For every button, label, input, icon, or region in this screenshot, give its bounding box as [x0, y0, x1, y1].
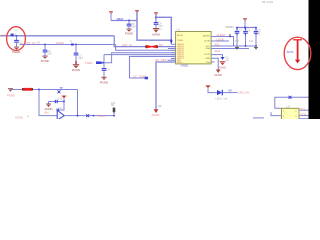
ground below C1: [12, 47, 20, 55]
ground under C9: [254, 46, 258, 50]
ground below C4: [100, 77, 108, 85]
wire from P2 down to IC pin1 column: [137, 12, 171, 44]
LED D1: [216, 90, 238, 101]
gray text above C10: [58, 97, 63, 101]
gray value text C8: [249, 40, 254, 43]
bead FB2: [145, 77, 148, 80]
wire TN2 y=62 stub: [211, 61, 214, 63]
net label red on output: [98, 114, 106, 118]
svg-text:AGND: AGND: [15, 115, 23, 119]
ground below C3 (large): [72, 64, 80, 72]
tiny gray text top right: [262, 0, 273, 4]
net label red end of LED wire: [239, 91, 250, 95]
net label (red) mid: [56, 41, 64, 45]
svg-text:ANT: ANT: [0, 33, 6, 37]
svg-text:TP: TP: [60, 86, 64, 90]
svg-text:red: red: [224, 97, 228, 101]
capacitor C6: [154, 22, 163, 29]
svg-text:RXEN: RXEN: [56, 41, 64, 45]
junction x=64 y=101.5: [63, 101, 65, 103]
svg-text:SCL: SCL: [301, 107, 307, 111]
red ground below blue arrow: [218, 61, 226, 69]
wire: jog down at x=114: [114, 36, 175, 47]
svg-text:AGND: AGND: [152, 33, 160, 37]
svg-text:SDA: SDA: [215, 49, 221, 53]
svg-text:PGND: PGND: [7, 93, 15, 97]
capacitor C3: [74, 45, 83, 62]
svg-text:PGND: PGND: [41, 59, 49, 63]
wire: main antenna net horizontal y=35.8: [0, 35, 114, 37]
cap leads down to rail y=46: [237, 35, 256, 46]
ground left end of sub-circuit: [45, 102, 53, 111]
svg-text:VDD33: VDD33: [225, 25, 234, 29]
connector/IC U3 yellow: [282, 104, 300, 122]
capacitor C5: [127, 21, 136, 29]
staircase wire: pin row y=50.3: [168, 48, 176, 50]
svg-text:AVDD: AVDD: [177, 34, 183, 37]
junction x=103: [102, 62, 104, 64]
blue mark near op-amp: [57, 109, 60, 112]
svg-text:104: 104: [131, 25, 136, 29]
staircase wire: pin row y=56.4: [130, 56, 176, 78]
svg-text:R9: R9: [158, 104, 162, 108]
svg-text:1uF: 1uF: [235, 40, 240, 43]
annotation ellipse (left, red hand-drawn): [7, 27, 26, 51]
ground below C6 (large): [152, 28, 162, 37]
svg-text:LDOE: LDOE: [217, 37, 225, 41]
svg-text:DVDD: DVDD: [177, 40, 184, 42]
wire ALERT y=36.5: [211, 37, 256, 47]
svg-text:104: 104: [78, 56, 83, 60]
junction x=39: [38, 89, 40, 91]
svg-text:LED1: LED1: [216, 97, 223, 101]
U1 left pin stubs: [171, 44, 176, 62]
RF pin wire y=62 to long vertical: [156, 62, 176, 109]
gray label VDD33: [225, 25, 234, 29]
svg-text:TXEN: TXEN: [85, 61, 92, 65]
svg-text:N2: N2: [37, 41, 41, 45]
rail y=27.5: [237, 27, 256, 29]
blue text above wire: [60, 86, 64, 90]
arrow into IC pin column: [170, 39, 173, 43]
left vertical x=39: [39, 90, 57, 116]
power symbol P3: [154, 13, 158, 23]
right vertical x=77.5: [77, 90, 79, 116]
junction x=77.5 on output: [77, 115, 79, 117]
net label SDA red: [215, 49, 221, 53]
blue label above LED wire: [229, 89, 233, 93]
svg-text:1uF: 1uF: [249, 40, 254, 43]
red highlighted resistor (bowtie) on antenna path: [145, 45, 158, 49]
op-amp U2: [57, 106, 64, 120]
blue X on y97 wire: [289, 96, 292, 99]
staircase wire: pin row y=54.6 drop to C4: [104, 55, 176, 69]
svg-text:ALERT: ALERT: [217, 33, 226, 37]
annotation ellipse (right, red hand-drawn): [284, 37, 311, 69]
gray text near x156 bottom: [158, 104, 162, 108]
junction x=156 y=17.3: [155, 16, 157, 18]
junctions on rail: [236, 27, 257, 29]
net label after bowtie: [159, 43, 163, 47]
red highlighted resistor R_sense: [22, 88, 33, 91]
test point TP1: [70, 40, 74, 45]
junction x=129: [128, 20, 130, 22]
svg-text:SCL: SCL: [215, 42, 221, 46]
U3 pin texts: [283, 111, 297, 118]
svg-text:SDA: SDA: [206, 47, 211, 50]
designator text gray: [37, 41, 41, 45]
inductor L1 on antenna net: [11, 32, 18, 36]
svg-text:GND: GND: [205, 58, 210, 60]
blue net label on wire: [117, 17, 124, 21]
U3 right wires: [299, 110, 309, 119]
net label SCL red: [215, 42, 221, 46]
junction at x=45: [44, 44, 46, 46]
bottom-right connector wires top: [275, 97, 309, 108]
ground below C2: [41, 56, 49, 64]
junction x=114: [113, 115, 115, 117]
svg-text:VBAT: VBAT: [117, 17, 124, 21]
red power arrow bottom of x156: [152, 109, 160, 117]
U1 right pin names (dark tiny): [203, 35, 211, 64]
staircase wire: pin row y=48.5: [116, 45, 176, 51]
net label ALERT red: [217, 33, 226, 37]
wire DCVP y=54.6: [211, 55, 222, 57]
stub down from junction: [57, 102, 64, 111]
bottom-left isolated net label: [15, 115, 23, 119]
ground below C5: [125, 29, 133, 36]
svg-text:LED_ON: LED_ON: [239, 91, 250, 95]
capacitor C8: [243, 28, 251, 36]
gray value text C7: [235, 40, 240, 43]
svg-text:RF_TEST: RF_TEST: [156, 58, 169, 62]
wire GND y=58.3 down: [211, 58, 218, 69]
dark arrow on ALERT at x230: [229, 35, 231, 38]
svg-text:PGND: PGND: [72, 68, 80, 72]
svg-text:RX_IN: RX_IN: [27, 41, 35, 45]
ground under C7: [235, 46, 239, 50]
net label RXP (red): [27, 41, 35, 45]
ferrite bead FB1 on y62.7: [96, 61, 102, 64]
svg-text:C4: C4: [106, 68, 110, 72]
svg-text:RF: RF: [159, 43, 163, 47]
resistor R3 vertical dark: [111, 102, 116, 116]
svg-text:U1: U1: [177, 28, 181, 32]
capacitor C9: [254, 28, 262, 36]
svg-text:1N: 1N: [226, 59, 229, 62]
pin stub row y=58.4: [171, 57, 176, 59]
blue net label in right ellipse: [287, 50, 295, 54]
capacitor C7: [235, 28, 243, 36]
svg-text:PGND: PGND: [100, 80, 108, 84]
svg-text:C10: C10: [58, 97, 63, 101]
capacitor C4: [102, 68, 110, 77]
blue X mark on wire: [58, 90, 61, 93]
wire y=20.5: [111, 20, 137, 22]
LED circuit: power T: [206, 86, 217, 93]
sub-circuit: power red T: [62, 96, 67, 102]
U1 left pin names (red tiny): [177, 34, 184, 64]
short wire bottom left of connector: [253, 117, 264, 119]
top-right decoupling: power P4: [243, 19, 247, 28]
svg-text:ALERT: ALERT: [203, 35, 211, 38]
wire SDA y=48.5: [211, 48, 249, 50]
svg-text:R: R: [28, 115, 30, 119]
power symbol top-left P1: [109, 12, 113, 21]
svg-text:AGND: AGND: [218, 65, 226, 69]
net label before bowtie: [122, 43, 132, 47]
junction at x=76: [75, 44, 77, 46]
stub wire into connector pin2: [271, 112, 282, 115]
gray text right of arrow: [226, 57, 230, 62]
wire y=101.5: [49, 101, 65, 103]
blue net text under IC bottom-left: [181, 64, 189, 68]
red wire segment below C3: [75, 61, 77, 64]
junction small x=93.5: [93, 115, 95, 117]
staircase wire: pin row y=60.2: [168, 59, 176, 61]
svg-text:DCVP: DCVP: [204, 54, 211, 56]
svg-text:U2: U2: [59, 106, 63, 110]
wire LDOE y=41: [211, 40, 229, 42]
power symbol P2: [135, 10, 139, 12]
net label LDOE red: [217, 37, 225, 41]
svg-text:VOUT: VOUT: [98, 114, 106, 118]
svg-text:WL-1234: WL-1234: [262, 0, 273, 4]
svg-text:AGND: AGND: [152, 113, 160, 117]
output wire y=114.8: [64, 115, 114, 117]
svg-text:104: 104: [47, 52, 52, 56]
red power arrow bottom: [214, 70, 222, 78]
svg-text:LDOE: LDOE: [204, 41, 210, 43]
capacitor C1 (in left ellipse): [14, 36, 23, 47]
svg-text:ANT_M: ANT_M: [122, 43, 132, 47]
wire from P3 right and down to IC: [156, 17, 171, 40]
junction on antenna net: [16, 35, 18, 37]
svg-text:AGND: AGND: [45, 107, 53, 111]
capacitor C10 horizontal: [55, 100, 57, 103]
svg-text:5V: 5V: [229, 89, 233, 93]
bottom-left: ground left of R red: [7, 88, 15, 97]
junction dots on y46 rail: [245, 45, 257, 47]
wire y=78 with bead: [130, 77, 148, 79]
net label red near op-amp input: [44, 111, 49, 115]
red labels right of U3: [301, 107, 307, 116]
small gray mark: [28, 115, 30, 119]
svg-text:VIN: VIN: [44, 111, 49, 115]
IC U1 main: [176, 28, 212, 64]
wire: RX net y=44.5: [20, 44, 116, 46]
svg-text:GND1: GND1: [181, 64, 189, 68]
net label ANT (red, left edge): [0, 33, 6, 37]
svg-text:PGND: PGND: [12, 50, 20, 54]
svg-text:U3: U3: [287, 104, 291, 108]
capacitor C2: [43, 45, 52, 56]
wire SCL y=46: [211, 45, 233, 47]
antenna component highlighted red inside ellipse: [293, 40, 302, 64]
blue X on output wire: [86, 114, 89, 117]
net label RF (red) above: [156, 58, 169, 62]
staircase wire: pin row y=52.8 with drop to mixer: [96, 53, 176, 63]
net label (red) on y78: [133, 74, 146, 78]
wire y=89.5: [11, 89, 78, 91]
svg-text:SDA: SDA: [301, 112, 307, 116]
net label (red) on y62.7: [85, 61, 92, 65]
black sidebar panel: [309, 0, 320, 119]
svg-text:ANT1: ANT1: [287, 50, 295, 54]
svg-text:104: 104: [19, 42, 24, 46]
tiny gray mark x258 y32: [257, 32, 261, 35]
svg-text:VC_TUNE: VC_TUNE: [133, 74, 146, 78]
svg-text:PGND: PGND: [125, 32, 133, 36]
svg-text:AGND: AGND: [214, 73, 222, 77]
blue power-down arrow: [220, 57, 224, 60]
